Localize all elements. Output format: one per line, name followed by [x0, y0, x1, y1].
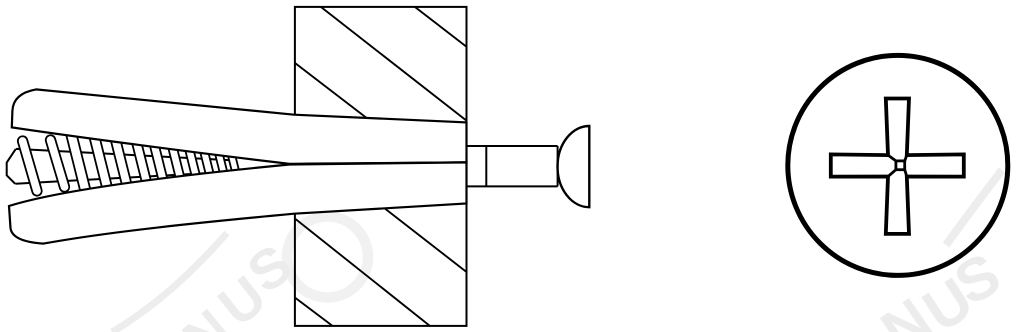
wall section rectangle [295, 7, 467, 326]
phillips chamfer lower-left [888, 170, 896, 177]
wing seam line [290, 162, 467, 164]
thread bar 12 [227, 150, 241, 180]
phillips cross outline [831, 99, 964, 234]
thread bar 10 [199, 146, 215, 183]
thread bar 5 [110, 134, 134, 195]
hatch line B [415, 7, 467, 47]
thread bar 8 [167, 142, 186, 188]
phillips center square [896, 161, 905, 170]
thread bar 4 [89, 131, 115, 198]
hatch line F [385, 209, 467, 272]
hatch line A [321, 7, 466, 120]
watermark group [112, 170, 1011, 332]
thread bar 1 [17, 135, 43, 197]
hatch line G [296, 298, 333, 326]
phillips chamfer lower-right [905, 170, 907, 177]
screw head front view circle [788, 55, 1008, 275]
anchor upper wing [12, 89, 467, 163]
screw head bearing face [557, 146, 559, 186]
screw core top line [16, 149, 231, 160]
thread bar 11 [214, 148, 229, 181]
screw head dome [558, 126, 590, 207]
thread bar 3 [65, 128, 93, 201]
watermark ring [287, 217, 368, 298]
screw tip [7, 149, 16, 184]
wall right edge over anchor [466, 121, 468, 205]
screw shaft top [468, 145, 558, 147]
watermark swoosh left [112, 233, 227, 332]
hatch line C [295, 63, 367, 118]
thread bar 2 [45, 134, 71, 193]
phillips chamfer upper-right [905, 155, 907, 161]
screw shaft bottom [468, 185, 558, 187]
screw core bottom line [15, 172, 231, 184]
thread bars [17, 128, 241, 201]
thread bar 9 [184, 144, 202, 185]
hatch line E [296, 219, 431, 326]
watermark arc right [946, 170, 1002, 245]
anchor lower wing [9, 162, 467, 243]
screw shaft thread mark [485, 146, 487, 186]
phillips chamfer upper-left [888, 155, 896, 161]
thread bar 6 [131, 137, 153, 193]
thread bar 7 [149, 139, 170, 190]
